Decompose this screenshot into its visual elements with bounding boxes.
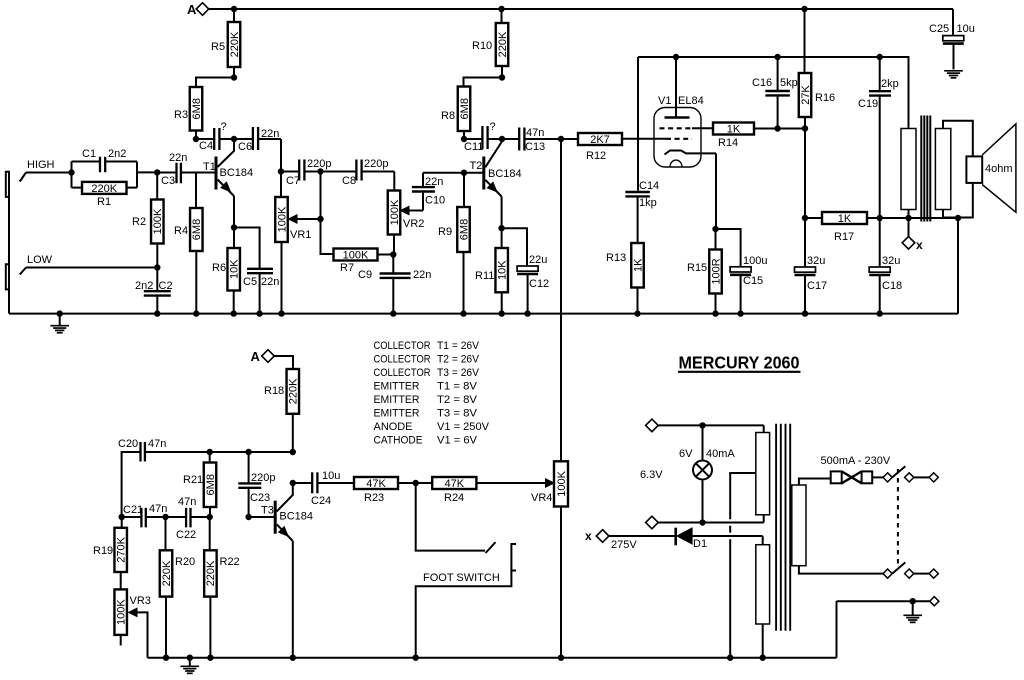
resistor R22 220K: [204, 517, 240, 658]
svg-text:T1 = 26V: T1 = 26V: [437, 340, 479, 352]
capacitor C10 22n: [412, 173, 445, 211]
junction dot bus x=233.7: [231, 310, 237, 316]
fuse 500mA: [831, 471, 883, 483]
svg-text:T2 = 26V: T2 = 26V: [437, 354, 479, 366]
resistor R16 27K: [799, 9, 835, 129]
svg-text:6M8: 6M8: [459, 98, 471, 119]
svg-text:32u: 32u: [807, 255, 825, 267]
junction dot R16 top: [801, 6, 807, 12]
junction dot bus x=259.6: [256, 310, 262, 316]
node X diamond: [902, 218, 923, 252]
junction dot LOW/C2 node: [154, 264, 160, 270]
earth wire: [837, 597, 939, 658]
junction dot bus x=393.3: [390, 310, 396, 316]
potentiometer VR1 100K: [275, 172, 320, 314]
tube V1 screen grid dashed: [660, 127, 714, 129]
svg-text:275V: 275V: [611, 539, 637, 551]
wire HIGH input: [20, 173, 72, 182]
svg-text:R23: R23: [364, 492, 384, 504]
resistor R23 47K: [354, 477, 398, 504]
svg-text:C5: C5: [243, 276, 257, 288]
svg-text:R22: R22: [220, 556, 240, 568]
svg-text:47n: 47n: [149, 503, 167, 515]
junction dot T2 collector node: [499, 136, 505, 142]
mains transformer primary 230V: [792, 479, 883, 574]
svg-text:V1 = 250V: V1 = 250V: [437, 421, 490, 433]
svg-text:R4: R4: [174, 225, 188, 237]
label 275V: [611, 539, 637, 551]
svg-text:R20: R20: [175, 556, 195, 568]
capacitor C7 220p: [281, 158, 331, 187]
svg-text:C12: C12: [529, 278, 549, 290]
capacitor C1 2n2: [72, 148, 138, 188]
svg-text:22n: 22n: [425, 176, 443, 188]
mains transformer HT winding: [756, 545, 770, 658]
capacitor C17 32u: [795, 218, 828, 314]
junction dot HT winding bus: [760, 655, 766, 661]
svg-text:R18: R18: [264, 385, 284, 397]
svg-text:C22: C22: [176, 529, 196, 541]
svg-text:R5: R5: [211, 41, 225, 53]
wire VR4 feed line: [560, 139, 562, 461]
junction dot C19 top: [877, 54, 883, 60]
resistor R21 6M8: [183, 452, 217, 517]
junction dot R20 top: [162, 514, 168, 520]
capacitor C24 10u: [293, 470, 354, 507]
svg-text:10K: 10K: [229, 259, 241, 279]
svg-text:V1 = 6V: V1 = 6V: [437, 435, 478, 447]
svg-text:C19: C19: [858, 98, 878, 110]
svg-text:100K: 100K: [389, 199, 401, 225]
output transformer secondary: [935, 121, 972, 218]
junction dot T3 emitter bus: [290, 655, 296, 661]
junction dot T1 collector node: [231, 136, 237, 142]
svg-text:47n: 47n: [178, 496, 196, 508]
capacitor C14 1kp: [625, 57, 659, 243]
resistor R13 1K: [606, 243, 644, 314]
svg-text:T2 = 8V: T2 = 8V: [437, 394, 478, 406]
svg-text:VR1: VR1: [290, 229, 311, 241]
svg-text:R7: R7: [340, 262, 354, 274]
capacitor C13 47n: [502, 127, 578, 153]
svg-text:220K: 220K: [497, 31, 509, 57]
wire T2 base: [423, 172, 483, 174]
node A diamond bottom: [251, 349, 275, 364]
svg-text:C17: C17: [807, 280, 827, 292]
wire supply rail A: [209, 8, 953, 10]
heater winding bottom diamond: [646, 516, 659, 529]
svg-text:C14: C14: [639, 180, 659, 192]
junction dot center tap bus: [727, 655, 733, 661]
heater winding top diamond: [646, 419, 659, 432]
svg-text:BC184: BC184: [220, 167, 254, 179]
mains transformer heater winding: [756, 433, 770, 515]
lamp 6V 40mA: [679, 425, 735, 522]
wire T3 base: [249, 516, 275, 518]
resistor R17 1K: [805, 212, 958, 243]
label 500mA - 230V: [821, 455, 891, 467]
svg-text:?: ?: [490, 121, 496, 133]
ground mains earth: [903, 601, 922, 622]
svg-text:VR4: VR4: [531, 492, 552, 504]
wire speaker return down: [957, 218, 959, 314]
junction dot T2 emitter node: [498, 225, 504, 231]
svg-text:100K: 100K: [116, 599, 128, 625]
junction dot R15 bus: [712, 310, 718, 316]
resistor R3 6M8: [174, 87, 203, 139]
capacitor C6 22n: [234, 127, 281, 172]
svg-text:32u: 32u: [882, 255, 900, 267]
capacitor C23 220p: [238, 452, 275, 517]
svg-text:220K: 220K: [229, 31, 241, 57]
svg-text:1K: 1K: [632, 258, 644, 272]
svg-text:C18: C18: [882, 280, 902, 292]
svg-text:10u: 10u: [957, 23, 975, 35]
svg-text:1kp: 1kp: [639, 197, 657, 209]
junction dot VR1 top node: [278, 168, 284, 174]
wire heater top: [658, 425, 764, 432]
junction dot lamp bottom: [699, 519, 705, 525]
mains switch upper pole: [883, 466, 938, 482]
svg-text:R6: R6: [212, 262, 226, 274]
svg-text:C3: C3: [161, 175, 175, 187]
svg-text:HIGH: HIGH: [27, 159, 55, 171]
svg-text:220K: 220K: [161, 560, 173, 586]
svg-text:R8: R8: [441, 110, 455, 122]
svg-text:100R: 100R: [710, 258, 722, 284]
node X diamond PSU: [585, 529, 609, 543]
svg-text:ANODE: ANODE: [374, 421, 413, 433]
capacitor C8 220p: [321, 158, 395, 191]
svg-text:22n: 22n: [261, 128, 279, 140]
svg-text:C11: C11: [464, 141, 483, 153]
junction dot R10 top: [498, 6, 504, 12]
svg-text:A: A: [187, 2, 197, 17]
junction dot R14/R16 node: [802, 125, 808, 131]
svg-text:22u: 22u: [529, 254, 547, 266]
resistor R4 6M8: [174, 173, 203, 314]
resistor R15 100R: [687, 229, 722, 314]
speaker 4ohm: [958, 124, 1016, 218]
capacitor C18 32u: [869, 218, 902, 314]
junction dot C21 left node: [119, 514, 125, 520]
svg-text:COLLECTOR: COLLECTOR: [374, 340, 431, 352]
svg-text:T1: T1: [203, 161, 216, 173]
wire ground bus bottom section: [148, 657, 837, 659]
svg-text:47n: 47n: [148, 438, 166, 450]
center tap wire: [730, 473, 756, 658]
svg-text:6M8: 6M8: [191, 98, 203, 119]
svg-text:T3 = 26V: T3 = 26V: [437, 367, 479, 379]
svg-text:BC184: BC184: [279, 511, 313, 523]
title MERCURY 2060: [678, 353, 801, 373]
svg-text:T3: T3: [261, 505, 274, 517]
svg-text:BC184: BC184: [488, 168, 522, 180]
svg-text:C13: C13: [525, 141, 545, 153]
transistor T1 BC184: [196, 139, 253, 228]
svg-text:220K: 220K: [91, 183, 117, 195]
svg-text:47K: 47K: [445, 478, 465, 490]
svg-text:R24: R24: [444, 492, 464, 504]
junction dot R5 bottom: [231, 74, 237, 80]
foot switch wiring: [416, 483, 485, 551]
svg-text:VR2: VR2: [403, 218, 424, 230]
svg-text:MERCURY 2060: MERCURY 2060: [679, 353, 800, 373]
svg-text:C20: C20: [118, 438, 138, 450]
resistor R20 220K: [160, 517, 195, 658]
label 6.3V: [640, 469, 663, 481]
output transformer core: [921, 116, 930, 222]
resistor R10 220K: [472, 9, 509, 78]
junction dot R2 top node: [154, 169, 160, 175]
junction dot bus x=196.3: [193, 310, 199, 316]
ground C25: [944, 71, 963, 78]
svg-text:x: x: [585, 529, 592, 543]
svg-text:10u: 10u: [322, 470, 340, 482]
junction dot C1/R1 left node: [68, 169, 74, 175]
capacitor C21 47n: [122, 503, 168, 527]
wire C8 node to VR1 wiper: [320, 172, 322, 220]
junction dot bus x=637.5: [634, 310, 640, 316]
svg-text:1K: 1K: [727, 124, 741, 136]
junction dot R10 bottom: [499, 74, 505, 80]
svg-text:R17: R17: [834, 231, 854, 243]
transistor T2 BC184: [470, 139, 522, 228]
svg-text:22n: 22n: [413, 269, 431, 281]
svg-text:C21: C21: [123, 504, 143, 516]
svg-text:6.3V: 6.3V: [640, 469, 663, 481]
junction dot C23 top: [245, 449, 251, 455]
junction dot C16 bottom: [774, 125, 780, 131]
resistor R18 220K: [264, 356, 300, 452]
junction dot bus x=501.7: [499, 310, 505, 316]
junction dot bus x=157.3: [154, 310, 160, 316]
capacitor C16 5kp: [752, 57, 798, 129]
svg-text:C8: C8: [342, 175, 356, 187]
svg-text:CATHODE: CATHODE: [374, 435, 423, 447]
tube V1 anode: [665, 57, 690, 118]
resistor R9 6M8: [438, 173, 470, 314]
svg-text:x: x: [916, 238, 923, 252]
foot switch jack: [416, 544, 516, 658]
input jack HIGH: [6, 172, 10, 197]
capacitor C2 2n2: [135, 268, 173, 314]
junction dot T3 base node: [245, 514, 251, 520]
svg-text:?: ?: [221, 121, 227, 133]
svg-text:220K: 220K: [288, 378, 300, 404]
junction dot earth: [910, 598, 916, 604]
svg-text:C15: C15: [743, 275, 763, 287]
svg-text:R13: R13: [606, 252, 626, 264]
svg-text:C25: C25: [929, 23, 949, 35]
svg-text:R14: R14: [718, 137, 738, 149]
svg-text:V1: V1: [658, 95, 671, 107]
svg-text:R15: R15: [687, 262, 707, 274]
tube V1 heater: [670, 160, 682, 167]
junction dot C7/C8 node: [317, 168, 323, 174]
resistor R8 6M8: [441, 78, 502, 140]
svg-text:100K: 100K: [343, 250, 369, 262]
wire screen rail: [638, 57, 909, 129]
resistor R11 10K: [475, 228, 509, 314]
capacitor C5 22n: [234, 228, 279, 314]
svg-text:10K: 10K: [497, 260, 509, 280]
svg-text:5kp: 5kp: [780, 77, 798, 89]
svg-text:C23: C23: [250, 492, 270, 504]
svg-text:C1: C1: [82, 148, 96, 160]
mains transformer core: [776, 424, 790, 631]
svg-text:C24: C24: [311, 495, 331, 507]
resistor R2 100K: [132, 172, 164, 267]
wire wiper to R7: [321, 219, 334, 254]
svg-text:47n: 47n: [526, 127, 544, 139]
junction dot T1 emitter node: [231, 224, 237, 230]
svg-text:2K7: 2K7: [590, 134, 610, 146]
junction dot R8/C11 node: [461, 136, 467, 142]
junction dot transformer primary bottom: [905, 215, 911, 221]
junction dot C17 bus: [802, 310, 808, 316]
svg-text:C16: C16: [752, 77, 772, 89]
svg-text:R19: R19: [93, 545, 113, 557]
junction dot R5 top: [231, 6, 237, 12]
label HIGH: [27, 159, 55, 171]
junction dot speaker return: [955, 215, 961, 221]
svg-text:100K: 100K: [556, 470, 568, 496]
resistor R12 2K7: [578, 133, 666, 162]
svg-text:VR3: VR3: [130, 595, 151, 607]
svg-text:R12: R12: [586, 150, 606, 162]
capacitor C9 22n: [358, 255, 431, 314]
svg-text:R21: R21: [183, 474, 203, 486]
junction dot C15 bus: [737, 310, 743, 316]
svg-text:47K: 47K: [366, 478, 386, 490]
junction dot foot switch bus: [413, 655, 419, 661]
svg-text:220p: 220p: [251, 472, 275, 484]
svg-text:C9: C9: [358, 269, 372, 281]
junction dot bus x=281.5: [278, 310, 284, 316]
svg-text:100K: 100K: [276, 206, 288, 232]
junction dot C16 top: [774, 54, 780, 60]
svg-text:FOOT SWITCH: FOOT SWITCH: [423, 572, 500, 584]
svg-text:220p: 220p: [307, 158, 331, 170]
resistor R14 1K: [713, 123, 805, 150]
svg-text:EMITTER: EMITTER: [374, 394, 420, 406]
junction dot R18/C20 node: [290, 449, 296, 455]
svg-text:C10: C10: [425, 195, 445, 207]
capacitor C20 47n: [118, 438, 293, 517]
capacitor C19 2kp: [858, 57, 899, 218]
junction dot R22 bus: [207, 655, 213, 661]
node A supply diamond: [187, 2, 209, 17]
svg-text:2n2: 2n2: [135, 280, 153, 292]
transistor T3 BC184: [261, 483, 313, 658]
resistor R5 220K: [211, 9, 241, 78]
svg-text:R1: R1: [97, 196, 111, 208]
capacitor C25 10u: [929, 9, 975, 69]
svg-text:COLLECTOR: COLLECTOR: [374, 354, 431, 366]
svg-text:C7: C7: [286, 175, 300, 187]
svg-text:R10: R10: [472, 40, 492, 52]
junction dot R9 top node: [461, 170, 467, 176]
ground input: [50, 310, 69, 332]
label FOOT SWITCH: [423, 572, 500, 584]
resistor R24 47K: [398, 477, 554, 504]
svg-text:6V: 6V: [679, 448, 693, 460]
ground bottom section: [181, 655, 200, 674]
mains switch lower pole: [883, 562, 938, 578]
svg-text:COLLECTOR: COLLECTOR: [374, 367, 431, 379]
wire 275V: [609, 535, 676, 537]
svg-text:EL84: EL84: [678, 95, 704, 107]
svg-text:22n: 22n: [261, 276, 279, 288]
svg-text:C2: C2: [159, 280, 173, 292]
wire R16 down to R17: [804, 129, 806, 219]
svg-text:A: A: [251, 349, 261, 364]
capacitor C12 22u: [502, 228, 550, 314]
tube V1 control grid dashed: [666, 138, 692, 140]
junction dot R20 bus: [163, 655, 169, 661]
junction dot VR1 wiper node: [317, 216, 323, 222]
svg-text:LOW: LOW: [27, 254, 53, 266]
junction dot C13/R12 node: [558, 136, 564, 142]
svg-text:D1: D1: [693, 538, 707, 550]
potentiometer VR3 100K: [114, 589, 150, 657]
svg-text:1K: 1K: [838, 213, 852, 225]
svg-text:22n: 22n: [169, 152, 187, 164]
junction dot R3/C4 node: [193, 136, 199, 142]
svg-text:R16: R16: [815, 92, 835, 104]
svg-text:T2: T2: [470, 160, 483, 172]
junction dot R17 left node: [802, 215, 808, 221]
junction dot cathode node: [712, 226, 718, 232]
svg-text:C6: C6: [238, 141, 252, 153]
svg-text:R3: R3: [174, 109, 188, 121]
svg-text:270K: 270K: [116, 536, 128, 562]
svg-text:2kp: 2kp: [881, 78, 899, 90]
resistor R7 100K: [334, 249, 394, 275]
svg-text:6M8: 6M8: [191, 219, 203, 240]
junction dot bus x=527.6: [524, 310, 530, 316]
wire LOW input: [20, 268, 158, 275]
svg-text:40mA: 40mA: [706, 448, 735, 460]
junction dot C18 bus: [877, 310, 883, 316]
svg-text:6M8: 6M8: [205, 474, 217, 495]
junction dot VR2 bottom node: [390, 251, 396, 257]
svg-text:100K: 100K: [152, 208, 164, 234]
junction dot VR4 bus: [558, 655, 564, 661]
capacitor C3 22n: [157, 152, 196, 187]
junction dot anode node: [673, 54, 679, 60]
junction dot R22 top: [207, 514, 213, 520]
svg-text:R2: R2: [132, 216, 146, 228]
resistor R1 220K: [72, 162, 138, 209]
svg-text:EMITTER: EMITTER: [374, 381, 420, 393]
mains switch link dashed: [897, 469, 899, 565]
output transformer primary: [901, 129, 916, 219]
junction dot R23/R24 node: [413, 480, 419, 486]
wire heater bottom: [658, 515, 764, 523]
capacitor C4: [196, 121, 234, 152]
potentiometer VR2 100K: [388, 191, 425, 255]
label LOW: [27, 254, 53, 266]
wire ground bus top section: [9, 313, 958, 315]
svg-text:500mA - 230V: 500mA - 230V: [821, 455, 891, 467]
foot switch contact hook: [486, 542, 496, 553]
svg-text:6M8: 6M8: [458, 219, 470, 240]
diode D1: [676, 528, 763, 550]
junction dot R21 top: [207, 449, 213, 455]
input jack LOW: [6, 264, 10, 289]
